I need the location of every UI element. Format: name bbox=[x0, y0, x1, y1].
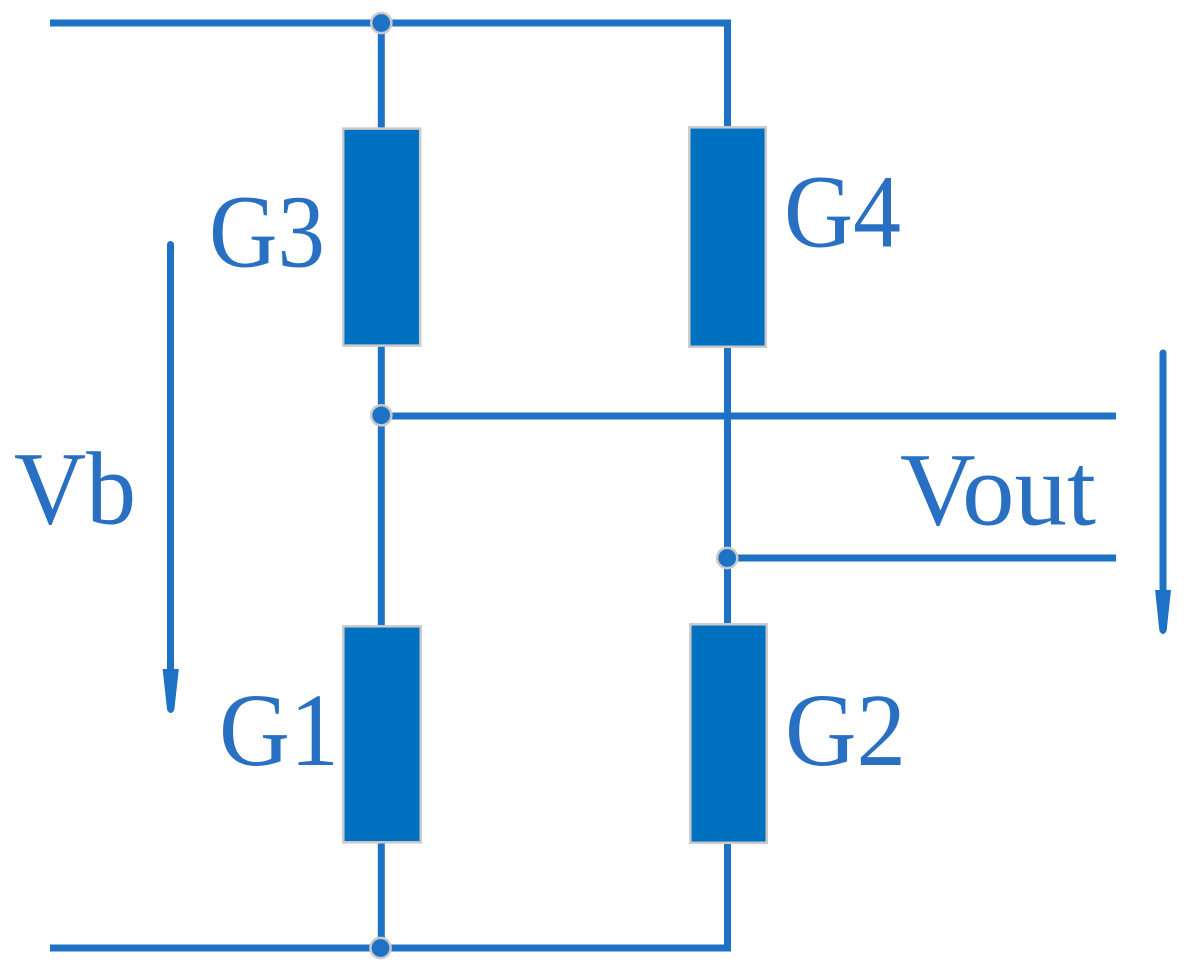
svg-text:Vb: Vb bbox=[14, 432, 136, 547]
svg-text:G2: G2 bbox=[785, 673, 906, 788]
svg-text:G1: G1 bbox=[219, 673, 339, 788]
svg-text:G4: G4 bbox=[784, 155, 901, 270]
svg-text:Vout: Vout bbox=[900, 433, 1096, 548]
svg-text:G3: G3 bbox=[209, 175, 325, 290]
